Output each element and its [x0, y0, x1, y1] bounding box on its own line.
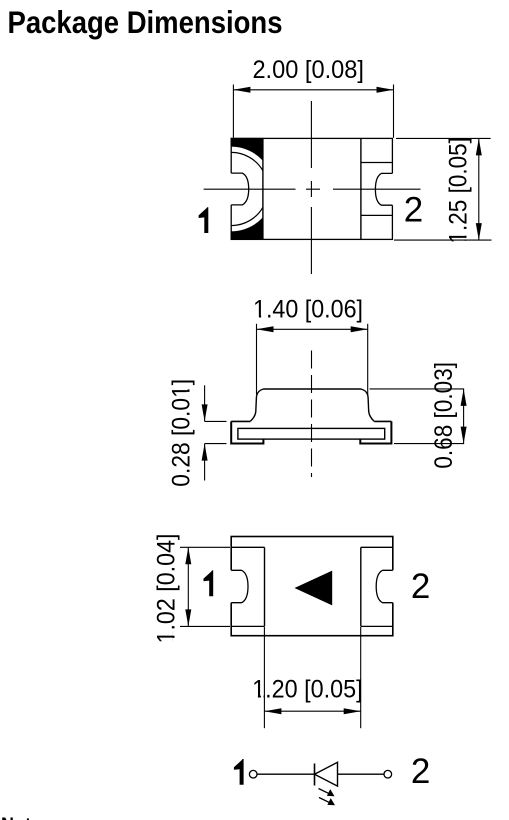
svg-text:Notes:: Notes: [1, 815, 57, 820]
arrow shaft below [204, 444, 206, 481]
extension line top [396, 137, 491, 139]
anode terminal horizontal line (lower) [361, 214, 393, 216]
light arrow 2 head [327, 798, 335, 805]
dimension line [478, 138, 480, 240]
svg-text:1.40 [0.06]: 1.40 [0.06] [253, 296, 363, 324]
horizontal centerline [204, 188, 421, 190]
dimension 1.25 [0.05] [394, 138, 492, 240]
dimension line [257, 328, 368, 330]
extension line left [232, 85, 234, 138]
pad inset line bottom-left [231, 625, 264, 627]
svg-text:1.20 [0.05]: 1.20 [0.05] [252, 676, 363, 704]
flange right terminal outline [360, 421, 391, 443]
reflector ring arc (inner, top) [231, 152, 263, 170]
extension line top [205, 420, 227, 422]
dimension line [233, 89, 393, 91]
extension line top [180, 546, 230, 548]
wire pin1 to cathode [257, 773, 314, 775]
left pad divider [264, 547, 266, 626]
dimension 1.40 [0.06] [257, 324, 368, 396]
extension line bottom [205, 443, 227, 445]
dimension 0.28 [0.01] [205, 385, 227, 480]
svg-text:0.68 [0.03]: 0.68 [0.03] [430, 362, 458, 469]
right notch (pin 2 castellation) [375, 173, 394, 205]
arrowhead left [233, 87, 250, 93]
white patches removing Liberation "1" foot serifs (Arial-style digits) [173, 231, 468, 698]
arrowhead right [351, 326, 368, 332]
arrowhead right [377, 87, 394, 93]
pin 2 terminal circle [384, 770, 392, 778]
anode terminal divider line [360, 138, 362, 239]
arrow shaft above [204, 385, 206, 421]
anode terminal horizontal line (upper) [361, 162, 393, 164]
arrowhead up [476, 138, 482, 155]
cathode terminal divider line [262, 138, 264, 239]
pad inset line bottom-right [361, 625, 393, 627]
flange top line left [231, 420, 250, 422]
light arrow 1 shaft [319, 789, 331, 795]
wire anode to pin 2 [338, 773, 384, 775]
arrowhead down [461, 427, 467, 444]
left notch (pin 1 castellation) [230, 173, 249, 205]
pin 1 label (bottom view) [204, 570, 214, 596]
dimension 1.02 [0.04] [180, 547, 230, 626]
flange left terminal outline [231, 421, 263, 443]
pin 1 label (schematic) [234, 759, 244, 785]
arrowhead up [461, 389, 467, 406]
extension line left [263, 627, 265, 728]
extension line right [393, 85, 395, 138]
left notch (bottom view) [229, 570, 248, 602]
arrowhead down [476, 223, 482, 240]
polarity triangle (points left) [295, 571, 333, 606]
dimension line [463, 389, 465, 444]
light arrow 1 head [327, 789, 335, 796]
light arrow 2 shaft [319, 798, 331, 804]
svg-text:Package Dimensions: Package Dimensions [8, 4, 283, 40]
cathode bar [314, 764, 316, 786]
right notch (bottom view) [376, 570, 394, 602]
right pad divider [360, 547, 362, 626]
cathode black corner (bottom-left) [231, 218, 263, 240]
extension line bottom [394, 443, 464, 445]
extension line right [367, 324, 369, 396]
package outline (bottom view) [231, 537, 393, 636]
svg-text:1.02 [0.04]: 1.02 [0.04] [153, 534, 181, 644]
side view vertical centerline [311, 351, 313, 478]
dimension 0.68 [0.03] [370, 389, 465, 444]
extension line right [360, 627, 362, 728]
svg-text:2.00 [0.08]: 2.00 [0.08] [252, 56, 364, 84]
package outline (top view) [231, 138, 392, 239]
extension line top [370, 388, 465, 390]
dimension line [187, 547, 189, 626]
arrowhead down (to top ext) [202, 404, 208, 421]
diode triangle [315, 762, 338, 786]
flange top line right [374, 420, 391, 422]
arrowhead left [264, 708, 281, 714]
pin 1 terminal circle [249, 770, 257, 778]
cathode black corner (top-left) [231, 138, 263, 160]
svg-text:1.25 [0.05]: 1.25 [0.05] [445, 137, 473, 244]
arrowhead down [185, 609, 191, 626]
svg-text:2: 2 [404, 191, 423, 230]
arrowhead up [185, 547, 191, 564]
dimension 2.00 [0.08] [233, 85, 393, 138]
arrowhead right [344, 708, 361, 714]
pad inset line top-right [361, 546, 393, 548]
arrowhead left [257, 326, 274, 332]
epoxy body profile [250, 389, 374, 421]
svg-text:2: 2 [411, 567, 430, 606]
substrate slab [238, 428, 385, 439]
dimension 1.20 [0.05] [264, 627, 360, 728]
reflector ring arc (inner, bottom) [231, 207, 263, 225]
extension line bottom [394, 239, 492, 241]
dimension line [264, 710, 360, 712]
pin 1 label (top view) [199, 207, 209, 233]
extension line bottom [180, 625, 230, 627]
svg-text:0.28 [0.01]: 0.28 [0.01] [167, 379, 195, 487]
extension line left [256, 324, 258, 395]
svg-text:2: 2 [411, 752, 430, 791]
vertical centerline [310, 101, 312, 274]
pad inset line top-left [231, 546, 264, 548]
arrowhead up (to bottom ext) [202, 444, 208, 461]
